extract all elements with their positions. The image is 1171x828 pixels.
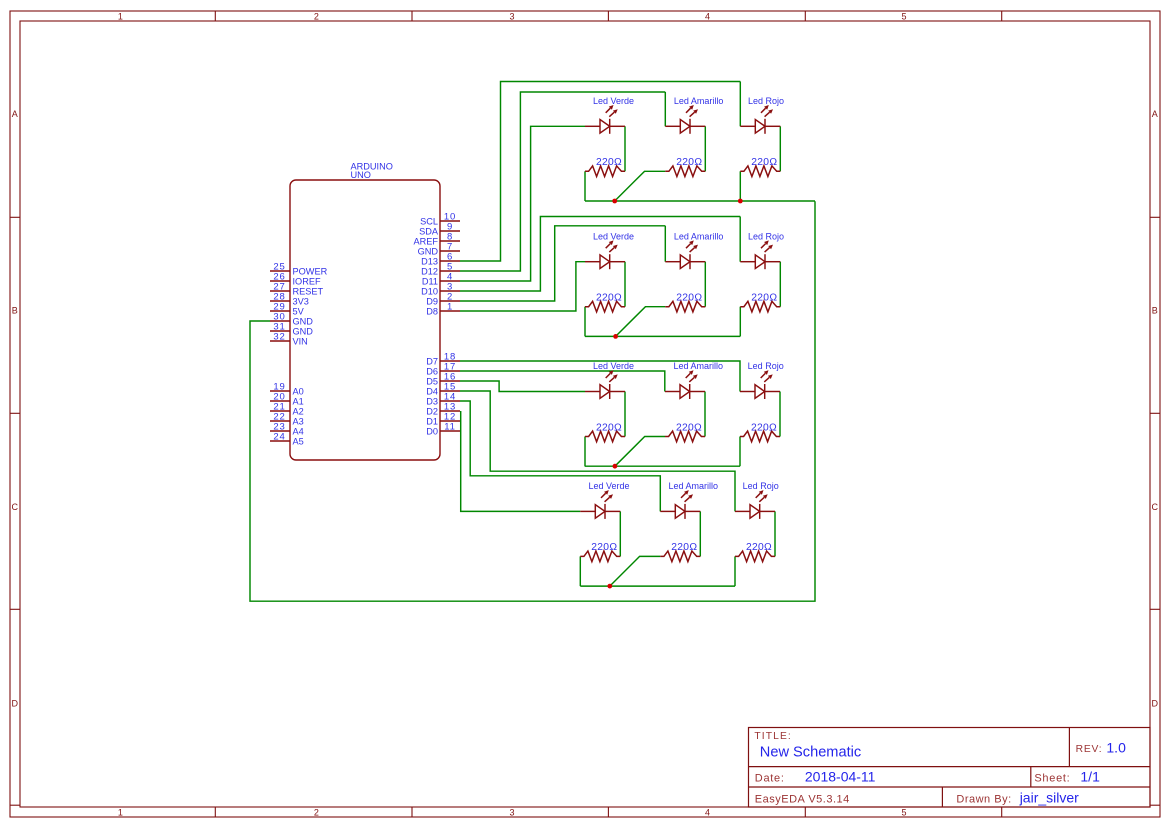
svg-text:Led Verde: Led Verde (593, 231, 634, 241)
svg-text:220Ω: 220Ω (746, 542, 772, 553)
svg-text:1: 1 (447, 301, 453, 312)
svg-text:Drawn By:: Drawn By: (956, 793, 1011, 805)
svg-text:D: D (1152, 699, 1159, 709)
svg-text:D3: D3 (426, 396, 438, 406)
svg-text:220Ω: 220Ω (751, 157, 777, 168)
svg-text:A0: A0 (293, 386, 304, 396)
svg-text:3: 3 (509, 807, 514, 817)
svg-text:3V3: 3V3 (293, 296, 309, 306)
svg-text:5: 5 (901, 807, 906, 817)
svg-text:Led Amarillo: Led Amarillo (669, 481, 719, 491)
svg-text:1: 1 (118, 807, 123, 817)
svg-text:D8: D8 (426, 306, 438, 316)
svg-text:RESET: RESET (293, 286, 324, 296)
svg-text:EasyEDA V5.3.14: EasyEDA V5.3.14 (755, 793, 850, 805)
svg-text:A4: A4 (293, 426, 304, 436)
svg-text:D1: D1 (426, 416, 438, 426)
svg-text:220Ω: 220Ω (596, 157, 622, 168)
svg-text:Led Amarillo: Led Amarillo (674, 361, 724, 371)
svg-text:Led Amarillo: Led Amarillo (674, 231, 724, 241)
svg-text:1.0: 1.0 (1106, 740, 1126, 756)
svg-text:A5: A5 (293, 436, 304, 446)
svg-text:220Ω: 220Ω (676, 422, 702, 433)
svg-text:IOREF: IOREF (293, 276, 321, 286)
svg-text:D4: D4 (426, 386, 438, 396)
svg-text:Sheet:: Sheet: (1034, 772, 1070, 784)
svg-text:C: C (12, 502, 19, 512)
svg-text:5: 5 (901, 11, 906, 21)
svg-text:220Ω: 220Ω (671, 542, 697, 553)
svg-text:1/1: 1/1 (1080, 769, 1100, 785)
svg-text:A: A (12, 109, 18, 119)
svg-text:SDA: SDA (419, 226, 439, 236)
svg-text:2018-04-11: 2018-04-11 (805, 769, 876, 785)
svg-text:D9: D9 (426, 296, 438, 306)
svg-text:Led Rojo: Led Rojo (748, 361, 784, 371)
svg-text:220Ω: 220Ω (751, 293, 777, 304)
svg-text:4: 4 (705, 807, 710, 817)
svg-text:C: C (1152, 502, 1159, 512)
svg-text:Led Rojo: Led Rojo (743, 481, 779, 491)
svg-text:A2: A2 (293, 406, 304, 416)
svg-text:AREF: AREF (413, 236, 438, 246)
svg-text:VIN: VIN (293, 336, 308, 346)
svg-text:A: A (1152, 109, 1158, 119)
svg-text:220Ω: 220Ω (676, 293, 702, 304)
svg-text:11: 11 (444, 421, 455, 432)
svg-text:Led Rojo: Led Rojo (748, 96, 784, 106)
svg-text:220Ω: 220Ω (596, 293, 622, 304)
svg-text:GND: GND (418, 246, 439, 256)
svg-text:New Schematic: New Schematic (760, 745, 861, 761)
svg-text:D6: D6 (426, 366, 438, 376)
svg-text:D: D (12, 699, 19, 709)
svg-text:B: B (1152, 306, 1158, 316)
svg-text:D5: D5 (426, 376, 438, 386)
svg-text:220Ω: 220Ω (591, 542, 617, 553)
svg-text:D2: D2 (426, 406, 438, 416)
svg-text:Led Rojo: Led Rojo (748, 231, 784, 241)
svg-text:24: 24 (273, 431, 285, 442)
svg-text:A3: A3 (293, 416, 304, 426)
svg-text:4: 4 (705, 11, 710, 21)
svg-text:220Ω: 220Ω (751, 422, 777, 433)
svg-text:2: 2 (314, 11, 319, 21)
svg-text:GND: GND (293, 316, 314, 326)
svg-text:D12: D12 (421, 266, 438, 276)
svg-text:1: 1 (118, 11, 123, 21)
svg-text:REV:: REV: (1076, 744, 1103, 755)
svg-text:Led Verde: Led Verde (593, 361, 634, 371)
svg-text:D10: D10 (421, 286, 438, 296)
svg-text:TITLE:: TITLE: (754, 731, 792, 742)
svg-text:SCL: SCL (420, 216, 438, 226)
svg-text:5V: 5V (293, 306, 305, 316)
svg-text:Led Verde: Led Verde (593, 96, 634, 106)
svg-text:D7: D7 (426, 356, 438, 366)
svg-text:jair_silver: jair_silver (1019, 790, 1079, 806)
svg-text:Led Verde: Led Verde (588, 481, 629, 491)
svg-text:3: 3 (509, 11, 514, 21)
svg-text:POWER: POWER (293, 266, 328, 276)
svg-text:GND: GND (293, 326, 314, 336)
svg-text:220Ω: 220Ω (676, 157, 702, 168)
svg-text:D11: D11 (422, 276, 438, 286)
svg-text:D13: D13 (421, 256, 438, 266)
svg-text:32: 32 (273, 331, 285, 342)
svg-text:Date:: Date: (755, 772, 785, 784)
svg-text:Led Amarillo: Led Amarillo (674, 96, 724, 106)
svg-text:B: B (12, 306, 18, 316)
svg-text:220Ω: 220Ω (596, 422, 622, 433)
svg-text:UNO: UNO (351, 170, 371, 180)
svg-text:D0: D0 (426, 426, 438, 436)
svg-text:2: 2 (314, 807, 319, 817)
svg-text:A1: A1 (293, 396, 304, 406)
